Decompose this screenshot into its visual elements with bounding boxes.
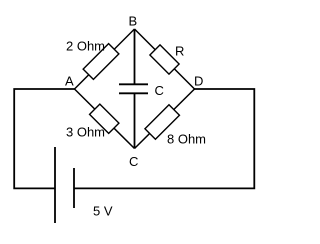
svg-text:A: A xyxy=(65,74,74,89)
svg-text:B: B xyxy=(129,14,138,29)
svg-text:C: C xyxy=(155,83,164,98)
svg-text:3 Ohm: 3 Ohm xyxy=(66,125,105,140)
svg-text:C: C xyxy=(129,154,138,169)
svg-text:8 Ohm: 8 Ohm xyxy=(167,132,206,147)
svg-text:5 V: 5 V xyxy=(93,204,113,219)
svg-text:2 Ohm: 2 Ohm xyxy=(66,39,105,54)
svg-text:D: D xyxy=(194,74,203,89)
svg-text:R: R xyxy=(175,44,184,59)
